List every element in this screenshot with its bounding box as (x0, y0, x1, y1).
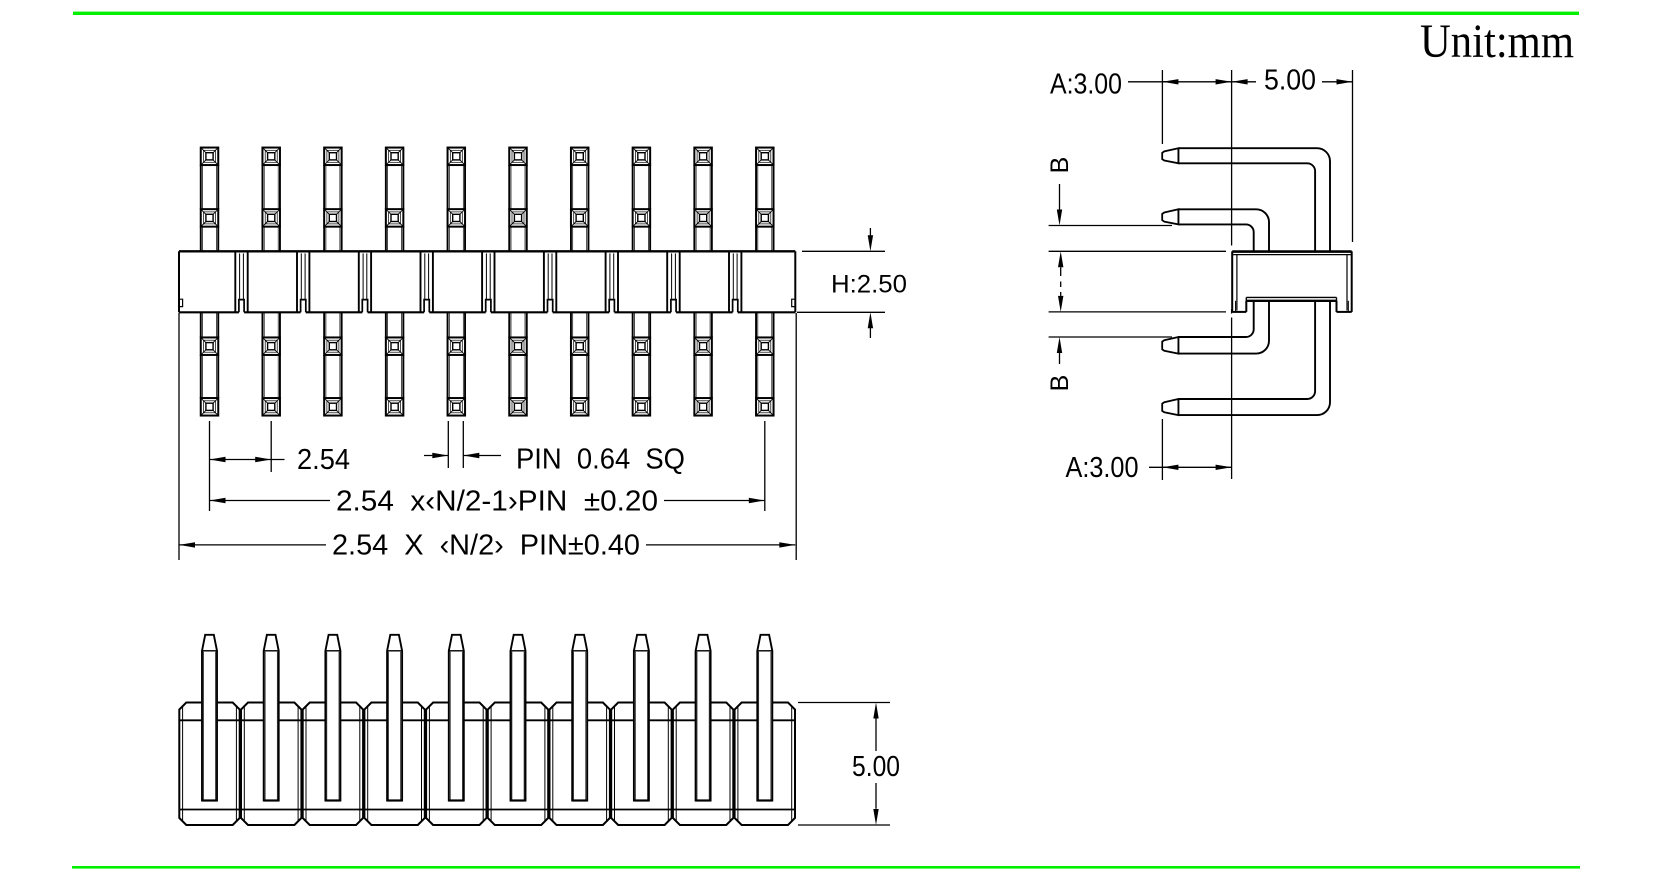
front-view housing segment 6 (488, 703, 548, 826)
side-view housing body (1232, 251, 1352, 312)
front-view pin 2 (264, 635, 279, 801)
dimension A:3.00 (top) (1050, 69, 1232, 145)
side-view pin 1 (outer top, bent down to body) (1162, 148, 1330, 251)
svg-text:5.00: 5.00 (852, 751, 900, 783)
top-view pin column 8 (633, 148, 651, 416)
front-view pin 5 (449, 635, 464, 801)
svg-text:PIN 0.64 SQ: PIN 0.64 SQ (516, 444, 685, 476)
dimension A:3.00 (bottom) (1066, 419, 1232, 484)
dimension 2.54 X (N/2) PIN±0.40 (179, 313, 796, 562)
front-view pin 8 (634, 635, 649, 801)
dimension 5.00 (body width) (1232, 65, 1353, 243)
front-view pin 6 (511, 635, 526, 801)
top-view pin column 6 (509, 148, 527, 416)
dimension 2.54 pin pitch (210, 421, 351, 511)
front-view housing segment 1 (179, 703, 239, 826)
top-view pin column 4 (386, 148, 404, 416)
svg-text:H:2.50: H:2.50 (831, 270, 907, 298)
front-view housing segment 4 (364, 703, 424, 826)
front-view housing segment 2 (241, 703, 301, 826)
front-view housing segment 10 (735, 703, 795, 826)
dimension B (lower) (1046, 337, 1172, 391)
svg-text:Unit:mm: Unit:mm (1420, 15, 1574, 68)
front-view housing segment 5 (426, 703, 486, 826)
front-view pin 7 (572, 635, 587, 801)
green border line bottom (72, 866, 1580, 869)
dimension PIN 0.64 SQ (424, 421, 685, 476)
top-view pin column 1 (201, 148, 219, 416)
side-view pin 4 (outer bottom, bent up to body) (1162, 301, 1330, 415)
front-view housing segment 3 (303, 703, 363, 826)
top-view pin column 7 (571, 148, 589, 416)
front-view pin 4 (387, 635, 402, 801)
svg-text:5.00: 5.00 (1264, 65, 1316, 97)
top-view pin column 3 (324, 148, 342, 416)
svg-text:A:3.00: A:3.00 (1066, 452, 1139, 484)
side-view pin 2 (inner top, bent down to body) (1162, 209, 1269, 251)
front-view housing segment 7 (550, 703, 610, 826)
front-view pin 1 (202, 635, 217, 801)
dimension B (upper) (1046, 157, 1172, 226)
front-view housing segment 8 (611, 703, 671, 826)
front-view pin 10 (757, 635, 772, 801)
side-view pin 3 (inner bottom, bent up to body) (1162, 301, 1269, 354)
extension line through body left face (1231, 70, 1233, 479)
svg-text:2.54: 2.54 (297, 444, 350, 476)
front-view pin 9 (696, 635, 711, 801)
top-view pin column 10 (756, 148, 774, 416)
top-view housing body (179, 251, 795, 312)
dimension 5.00 housing height (798, 703, 900, 826)
svg-text:B: B (1046, 157, 1074, 174)
housing height extension lines and center arrows (1049, 251, 1226, 312)
top-view pin column 2 (262, 148, 280, 416)
dimension 2.54 x(N/2-1)PIN ±0.20 (210, 421, 765, 517)
green border line top (73, 12, 1579, 15)
front-view pin 3 (325, 635, 340, 801)
svg-text:A:3.00: A:3.00 (1050, 69, 1122, 101)
svg-text:B: B (1046, 375, 1074, 392)
top-view pin column 5 (448, 148, 466, 416)
top-view pin column 9 (694, 148, 712, 416)
dimension H:2.50 (797, 228, 907, 338)
svg-text:2.54 X ‹N/2› PIN±0.40: 2.54 X ‹N/2› PIN±0.40 (332, 530, 640, 562)
front-view housing segment 9 (673, 703, 733, 826)
svg-text:2.54 x‹N/2-1›PIN ±0.20: 2.54 x‹N/2-1›PIN ±0.20 (336, 485, 658, 517)
